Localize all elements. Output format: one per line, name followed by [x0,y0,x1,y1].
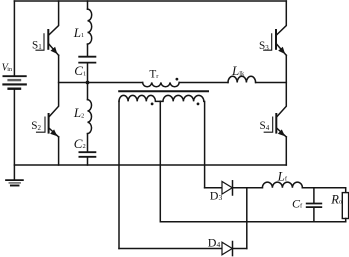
capacitor Cf [307,204,322,208]
wire primary to Llk [179,82,228,84]
wire Llk to right leg midpoint [256,82,287,84]
transistor S3 [264,30,287,55]
svg-text:C2: C2 [74,136,86,151]
node secondary left polarity dot [151,103,154,106]
diode D4 [222,242,233,256]
resistor Ro [342,193,348,219]
transistor S2 [37,114,59,137]
diode D3 [222,181,233,195]
capacitor C2 [79,152,95,157]
wire D4 anode lead from secondary left [119,248,222,250]
wire top rail to L1 [87,1,89,9]
wire S3 emitter to S4 collector (right leg midpoint) [277,55,287,117]
wire L2 to C2 [87,134,89,152]
wire bottom rail [14,164,286,166]
svg-text:Ro: Ro [330,192,342,206]
wire secondary left terminal down to D4 wire [118,101,120,248]
wire Cf branch lower [313,208,315,222]
wire S1 collector lead [49,1,59,35]
ground [6,180,23,185]
wire S4 emitter to bottom rail right end [285,137,287,165]
wire C1 to midpoint junction and down to L2 [87,63,89,99]
wire D3 anode lead [205,187,222,189]
capacitor C1 [79,57,95,63]
wire S3 collector lead [277,1,287,35]
svg-text:S2: S2 [31,120,41,132]
wire secondary right terminal down to D3 wire [204,101,206,187]
transformer Tr primary winding [143,83,180,87]
svg-text:S1: S1 [32,39,42,51]
svg-text:S3: S3 [259,40,269,52]
svg-text:C1: C1 [74,63,86,78]
transformer core [119,90,208,92]
svg-text:Tr: Tr [149,69,159,81]
inductor Lf [262,182,302,188]
wire L1 to C1 [87,44,89,56]
transistor S1 [36,30,59,55]
wire left rail upper (Vin top lead) [13,1,15,75]
svg-text:S4: S4 [260,120,270,132]
wire S1 emitter to S2 collector (half-bridge midpoint) [49,55,59,117]
svg-text:Cf: Cf [292,196,303,210]
svg-text:L2: L2 [73,105,84,120]
wire left rail lower (battery minus to bottom rail and ground) [13,90,15,180]
svg-text:Lf: Lf [277,168,288,183]
inductor L1 [88,9,92,44]
transformer secondary winding right [160,95,203,101]
inductor L2 [88,100,92,134]
wire Ro bottom lead [345,219,347,222]
svg-text:Llk: Llk [231,63,245,78]
inductor Llk [228,76,256,82]
wire Cf branch upper [313,188,315,203]
wire D3 cathode to Lf [233,187,263,189]
wire S2 emitter to bottom rail [58,137,60,165]
transistor S4 [264,114,286,137]
node junction dot [86,81,90,85]
svg-text:L1: L1 [73,25,84,40]
wire rectified node down (D3/D4 join) [246,188,248,249]
svg-text:D3: D3 [210,188,223,202]
wire D4 cathode to join vertical [233,248,247,250]
wire top rail [14,0,286,2]
wire C2 to bottom rail [87,158,89,165]
svg-text:D4: D4 [208,235,221,249]
wire Lf to output plus node [302,188,345,193]
battery Vin [3,76,25,89]
node secondary right polarity dot [197,103,200,106]
node primary polarity dot [176,78,179,81]
transformer secondary winding left [119,95,160,101]
wire midpoint to transformer primary [59,82,143,84]
svg-text:Vin: Vin [2,63,13,74]
wire center tap down and right to output return [160,101,345,221]
